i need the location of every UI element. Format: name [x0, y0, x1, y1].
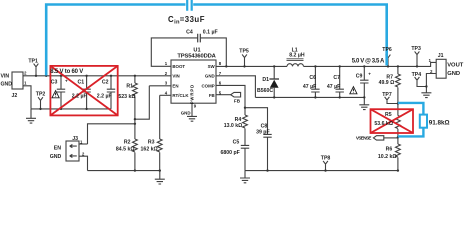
- svg-text:+: +: [65, 78, 68, 83]
- resistor R1: [134, 76, 136, 83]
- wire EN to IC: [149, 85, 171, 87]
- wire J2 pin1 to ground corner: [23, 86, 31, 109]
- svg-text:162 kΩ: 162 kΩ: [141, 146, 158, 152]
- ground left rail: [159, 171, 161, 180]
- J3 pin arrows: [70, 145, 77, 148]
- ground output: [363, 97, 365, 104]
- connector J3 box: [66, 141, 79, 161]
- svg-text:C2: C2: [102, 80, 109, 86]
- svg-text:49.9 Ω: 49.9 Ω: [379, 80, 395, 86]
- svg-text:R2: R2: [124, 139, 131, 145]
- test point TP4: [415, 77, 420, 80]
- svg-text:+: +: [368, 72, 371, 77]
- net tag FB: [231, 92, 241, 97]
- ic GND pin wire to output ground line: [216, 76, 255, 98]
- svg-text:C5: C5: [233, 140, 240, 146]
- svg-text:2.2 µF: 2.2 µF: [97, 94, 112, 100]
- svg-text:VIN: VIN: [1, 73, 10, 79]
- test point TP6: [386, 55, 391, 58]
- svg-text:VIN: VIN: [172, 74, 179, 79]
- connector J2 box: [12, 72, 23, 89]
- red cross-out box input caps: [50, 66, 117, 116]
- svg-text:GND: GND: [205, 74, 215, 79]
- wire right ground rail: [245, 170, 398, 172]
- blue input bulk cap wire: [46, 0, 387, 76]
- capacitor C4: [198, 34, 201, 43]
- wire FB pin to tag: [216, 94, 231, 96]
- test point TP3: [415, 51, 420, 54]
- wire left ground rail: [88, 170, 160, 172]
- wire J2 pin2 to VIN rail: [23, 75, 171, 77]
- svg-text:R3: R3: [148, 139, 155, 145]
- svg-text:VSENSE: VSENSE: [356, 135, 372, 140]
- svg-text:RT/CLK: RT/CLK: [172, 93, 189, 98]
- wire input ground rail: [31, 108, 111, 110]
- svg-text:C1: C1: [78, 80, 85, 86]
- wire VSENSE tag to divider: [384, 137, 398, 139]
- test point TP1: [34, 64, 39, 67]
- svg-text:C6: C6: [309, 75, 316, 81]
- svg-text:53.6 kΩ: 53.6 kΩ: [374, 121, 393, 127]
- connector J1 box: [436, 59, 446, 78]
- svg-text:C4: C4: [186, 30, 193, 36]
- resistor R6: [396, 144, 401, 157]
- capacitor C6: [314, 66, 316, 97]
- IC U1 box: [171, 60, 216, 103]
- svg-text:GND: GND: [50, 154, 62, 160]
- svg-text:SW: SW: [208, 64, 216, 69]
- svg-text:8.2 µH: 8.2 µH: [289, 53, 305, 59]
- svg-text:C3: C3: [51, 80, 58, 86]
- capacitor C1: [86, 76, 88, 109]
- svg-text:8.5 V to 60 V: 8.5 V to 60 V: [50, 69, 83, 75]
- resistor R2: [134, 124, 136, 139]
- svg-text:B560C: B560C: [257, 88, 273, 94]
- svg-text:TP4: TP4: [412, 72, 422, 78]
- svg-text:47 µF: 47 µF: [303, 84, 316, 90]
- resistor R3 (RT): [159, 95, 161, 139]
- svg-text:10.2 kΩ: 10.2 kΩ: [378, 154, 397, 160]
- svg-text:EN: EN: [54, 145, 61, 151]
- red cross-out box R5: [371, 109, 414, 133]
- ground J2: [30, 109, 32, 118]
- svg-text:0.1 µF: 0.1 µF: [203, 30, 218, 36]
- IC pin numbers: [165, 61, 222, 109]
- net tag VSENSE: [373, 136, 383, 140]
- test point TP5: [242, 54, 247, 57]
- svg-text:COMP: COMP: [202, 83, 215, 88]
- ground right rail: [244, 171, 246, 178]
- ground J1: [425, 87, 427, 93]
- wire C8 branch: [245, 108, 268, 135]
- svg-text:J1: J1: [438, 53, 444, 59]
- svg-text:TPS54360DDA: TPS54360DDA: [177, 53, 216, 59]
- wire J3 pin2 to ground rail: [79, 156, 88, 170]
- ground pin9: [187, 116, 197, 121]
- svg-text:J3: J3: [72, 136, 78, 142]
- wire R1 bottom to EN vertical: [135, 86, 149, 119]
- svg-text:TP2: TP2: [36, 92, 46, 98]
- resistor R4: [243, 115, 248, 128]
- svg-text:TP7: TP7: [382, 92, 392, 98]
- svg-text:91.8kΩ: 91.8kΩ: [429, 119, 450, 126]
- svg-text:6800 pF: 6800 pF: [220, 150, 239, 156]
- wire RT/CLK to IC: [160, 94, 171, 96]
- svg-text:47 µF: 47 µF: [327, 84, 340, 90]
- test point TP7: [385, 97, 390, 100]
- svg-text:TP6: TP6: [382, 47, 392, 53]
- svg-text:R6: R6: [386, 147, 393, 153]
- wire COMP to compensation network: [216, 85, 245, 115]
- svg-text:TP8: TP8: [321, 156, 331, 162]
- svg-text:39 pF: 39 pF: [256, 130, 270, 136]
- wire output rail: [304, 62, 437, 66]
- svg-text:GND: GND: [1, 82, 13, 88]
- svg-text:84.5 kΩ: 84.5 kΩ: [116, 146, 135, 152]
- capacitor C5: [241, 145, 249, 148]
- IC pin names: [172, 64, 215, 98]
- warning triangle at C9: [350, 87, 357, 94]
- capacitor C8: [263, 134, 271, 137]
- capacitor Cin: [187, 0, 192, 11]
- svg-text:TP3: TP3: [411, 46, 421, 52]
- svg-text:R5: R5: [385, 112, 392, 118]
- svg-text:523 kΩ: 523 kΩ: [118, 94, 135, 100]
- resistor R5: [396, 116, 401, 129]
- svg-text:TP1: TP1: [28, 59, 38, 65]
- svg-text:FB: FB: [209, 93, 215, 98]
- blue feedback resistor mod wire: [398, 103, 427, 136]
- svg-text:5.0 V @ 3.5 A: 5.0 V @ 3.5 A: [352, 58, 385, 64]
- svg-text:GND: GND: [181, 111, 191, 116]
- svg-text:VOUT: VOUT: [447, 63, 464, 69]
- resistor 91.8k (mod): [420, 115, 427, 128]
- wire J3 pin1 up to EN divider: [88, 124, 135, 144]
- svg-text:Cin=33uF: Cin=33uF: [168, 15, 205, 25]
- resistor R7: [397, 66, 399, 74]
- test point TP8: [323, 161, 328, 164]
- svg-text:FB: FB: [234, 98, 241, 103]
- wire output ground line: [255, 96, 364, 98]
- capacitor C3: [60, 76, 62, 109]
- ic PWRPD pin9 stub: [191, 103, 193, 116]
- capacitor C2: [110, 76, 112, 109]
- inductor L1: [287, 64, 304, 67]
- diode D1: [273, 66, 275, 79]
- svg-text:TP5: TP5: [239, 48, 249, 54]
- svg-text:GND: GND: [447, 71, 460, 77]
- capacitor C7: [339, 66, 341, 97]
- svg-text:D1: D1: [262, 77, 269, 83]
- wire J3 pin1: [79, 143, 88, 145]
- wire SW rail: [216, 65, 287, 67]
- svg-text:C7: C7: [333, 75, 340, 81]
- test point TP2: [38, 97, 43, 100]
- warning triangle at C3: [52, 91, 59, 98]
- wire J1 pin2 to ground: [426, 74, 436, 87]
- wire BOOT loop with C4: [151, 38, 226, 67]
- svg-text:PWRPD: PWRPD: [189, 85, 194, 105]
- svg-text:C9: C9: [356, 74, 363, 80]
- svg-text:J2: J2: [12, 93, 18, 99]
- svg-text:R1: R1: [126, 84, 133, 90]
- svg-text:BOOT: BOOT: [172, 64, 185, 69]
- capacitor C9: [363, 66, 365, 97]
- svg-text:13.0 kΩ: 13.0 kΩ: [224, 123, 243, 129]
- svg-text:EN: EN: [172, 83, 178, 88]
- svg-text:2.2 µF: 2.2 µF: [72, 94, 87, 100]
